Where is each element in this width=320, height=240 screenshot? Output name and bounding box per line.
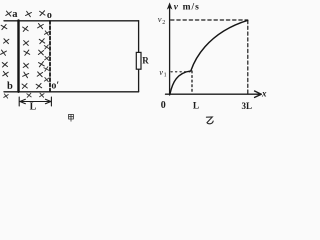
svg-text:2: 2	[162, 20, 165, 26]
svg-text:v: v	[174, 2, 179, 12]
svg-text:0: 0	[161, 100, 166, 111]
y axis	[169, 6, 171, 95]
dotted horizontal line at v1	[171, 71, 190, 73]
dimension right tick	[50, 97, 52, 106]
v-x curve	[170, 20, 248, 94]
dimension left tick	[18, 97, 20, 106]
conducting rod ab	[17, 21, 19, 92]
svg-text:b: b	[7, 81, 13, 92]
dotted vertical line at L	[191, 71, 193, 94]
wire: right side lower segment	[138, 69, 140, 92]
dashed boundary line o-o'	[49, 21, 51, 91]
svg-text:o′: o′	[51, 80, 59, 91]
svg-text:L: L	[193, 101, 199, 111]
wire: top rail	[4, 20, 139, 22]
caption 乙 (yǐ) drawn as strokes	[206, 117, 213, 124]
dimension line with arrows	[20, 99, 51, 103]
dashed vertical line at 3L	[247, 20, 249, 93]
svg-text:m/s: m/s	[183, 2, 200, 12]
magnetic field crosses (B into page)	[1, 11, 50, 98]
svg-text:R: R	[142, 55, 149, 65]
dashed horizontal line at v2	[171, 19, 248, 21]
wire: bottom rail	[4, 91, 139, 93]
wire: right side upper segment	[138, 21, 140, 53]
svg-text:x: x	[261, 88, 267, 98]
svg-text:a: a	[12, 9, 18, 20]
svg-text:o: o	[47, 10, 52, 21]
y axis arrowhead	[167, 2, 173, 9]
svg-text:L: L	[30, 101, 37, 112]
svg-text:3L: 3L	[242, 101, 253, 111]
x axis	[166, 93, 258, 95]
svg-text:1: 1	[164, 72, 167, 78]
resistor R body	[136, 52, 141, 69]
x axis arrowhead	[255, 91, 262, 97]
svg-text:v: v	[159, 67, 163, 77]
caption 甲 (jiǎ) drawn as strokes	[69, 114, 74, 121]
svg-text:v: v	[158, 14, 162, 24]
